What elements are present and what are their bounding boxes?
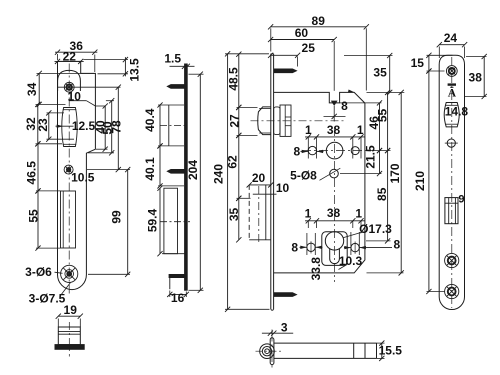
svg-text:10: 10 xyxy=(68,90,82,104)
view C: dim 46 xyxy=(379,103,381,151)
view C: upper left fixing hole xyxy=(308,146,316,154)
view A: dim 10 leader xyxy=(70,100,87,102)
view D: vertical centreline xyxy=(451,57,453,308)
view C: euro cylinder cutout rounded rect xyxy=(322,232,347,266)
section view C: rolled edge circles xyxy=(260,344,275,359)
section view C: dim 15.5 xyxy=(377,342,385,344)
view A: dim 99 xyxy=(127,170,129,275)
view B: dim 59.4 and cutout box xyxy=(159,188,161,254)
view C: dim 1 38 1 upper xyxy=(305,136,365,138)
svg-text:8: 8 xyxy=(291,240,298,254)
view A: dim 78 xyxy=(117,87,119,169)
view A: dim 55 xyxy=(37,191,39,248)
view A: middle screw 10.5 xyxy=(64,165,73,174)
svg-text:240: 240 xyxy=(212,164,226,184)
view A: bottom screw 3-Ø6 / 3-Ø7.5 xyxy=(61,265,78,282)
view C: bottom fixing screw bump xyxy=(274,292,298,297)
svg-text:1: 1 xyxy=(357,123,364,137)
view D: small circle below barrel xyxy=(447,139,455,147)
view C: left dim chain 35 xyxy=(238,198,240,240)
view B: faceplate side profile (black plate) xyxy=(185,64,188,290)
view C: hub centreline horizontal xyxy=(302,150,368,152)
svg-text:46.5: 46.5 xyxy=(25,161,39,185)
view C: follower hub hole xyxy=(326,142,343,159)
view A: dim 40 xyxy=(104,106,106,149)
svg-text:10: 10 xyxy=(276,181,290,195)
view A: dim 36 xyxy=(55,51,97,53)
view A: dim 22 on tab top edge xyxy=(55,60,84,62)
view C: small arrow on case top edge xyxy=(348,89,355,92)
view C: latch bolt body behind faceplate xyxy=(274,107,280,135)
svg-text:55: 55 xyxy=(26,209,40,223)
view D: dim 38 xyxy=(483,57,485,97)
view C: dim 170 xyxy=(400,92,402,273)
svg-text:5-Ø8: 5-Ø8 xyxy=(290,169,317,183)
view D: brand logo xyxy=(448,83,456,85)
section view A-A: dim 19 xyxy=(58,315,80,317)
section view C: faceplate capsule xyxy=(270,338,274,365)
svg-text:14.8: 14.8 xyxy=(445,105,469,119)
view B: dim chain 40.4 xyxy=(159,105,161,146)
svg-text:99: 99 xyxy=(109,210,123,224)
svg-text:24: 24 xyxy=(444,31,458,45)
view C: faceplate double line xyxy=(270,54,272,309)
svg-text:59.4: 59.4 xyxy=(146,208,160,232)
view A: tall inner arch at plate top xyxy=(58,70,81,91)
view B: dim chain 40.1 xyxy=(159,146,161,186)
svg-text:19: 19 xyxy=(64,303,78,317)
view C: latch centreline xyxy=(251,120,346,122)
view C: latch bolt head xyxy=(258,107,271,135)
svg-text:48.5: 48.5 xyxy=(226,67,240,91)
svg-text:3-Ø6: 3-Ø6 xyxy=(25,265,52,279)
view C: case top ext line xyxy=(367,91,405,93)
view B: dim 204 xyxy=(199,74,201,290)
svg-text:62: 62 xyxy=(226,155,240,169)
view C: dim 60 xyxy=(271,39,335,41)
svg-text:35: 35 xyxy=(227,208,241,222)
view C: notch dim 8 arrow and ext xyxy=(331,101,338,106)
view A: faceplate front view outline xyxy=(58,61,96,289)
view C: left dim chain 48.5 xyxy=(238,54,240,107)
svg-text:8: 8 xyxy=(293,145,300,159)
svg-text:170: 170 xyxy=(388,163,402,183)
view C: euro profile cylinder hole xyxy=(325,232,343,250)
view C: dim 8 upper left hole xyxy=(301,150,309,152)
view A: dim 32 xyxy=(37,104,39,143)
view C: upper right fixing hole xyxy=(351,147,359,155)
view C: hidden lower guide box dashed xyxy=(248,185,250,240)
svg-text:33.8: 33.8 xyxy=(309,257,323,281)
view D: latch barrel cutout xyxy=(444,103,459,127)
view B: top screw bump xyxy=(166,84,184,89)
svg-text:89: 89 xyxy=(312,14,326,28)
svg-text:3-Ø7.5: 3-Ø7.5 xyxy=(29,292,66,306)
view A: dim 46.5 xyxy=(37,144,39,191)
view D: dim 210 xyxy=(428,71,430,292)
view B: bottom foot black bar xyxy=(169,274,185,277)
svg-text:1.5: 1.5 xyxy=(164,52,181,66)
svg-text:1: 1 xyxy=(355,207,362,221)
svg-text:9: 9 xyxy=(458,194,464,206)
view A: dim 23 xyxy=(48,113,50,139)
view C: 5-Ø8 hole with leader xyxy=(330,169,339,178)
view C: left dim chain 62 xyxy=(238,135,240,198)
view A: dim 13.5 xyxy=(124,57,126,76)
section view A-A: faceplate section box xyxy=(58,327,80,345)
svg-text:35: 35 xyxy=(373,66,387,80)
view B: cylinder centre mark xyxy=(160,221,190,223)
svg-text:34: 34 xyxy=(25,82,39,96)
view A: dim 50 xyxy=(111,101,113,153)
view C: dim 89 xyxy=(271,26,367,28)
view C: left dim chain 27 xyxy=(238,107,240,135)
view C: dim 55 xyxy=(387,92,389,150)
svg-text:85: 85 xyxy=(375,187,389,201)
section view A-A: centerline xyxy=(68,322,70,357)
view C: vertical centreline through hub and cylinder xyxy=(334,127,336,282)
view B: middle screw bump xyxy=(166,169,184,174)
view C: dim 21.5 xyxy=(379,151,381,174)
svg-text:40.1: 40.1 xyxy=(143,157,157,181)
view A: top screw xyxy=(64,82,74,92)
svg-text:204: 204 xyxy=(186,160,200,180)
view C: lock case outline with notch and chamfers xyxy=(274,92,365,273)
section view A-A: plate base bar xyxy=(55,345,84,350)
svg-text:38: 38 xyxy=(327,123,341,137)
view D: dim 24 xyxy=(439,44,464,46)
view B: foot box xyxy=(169,278,171,290)
svg-text:210: 210 xyxy=(413,171,427,191)
view C: dim 8 lower right hole xyxy=(350,232,352,255)
view D: plate outline rounded ends xyxy=(439,55,464,309)
view A: slot cutout rectangle xyxy=(61,191,76,248)
view D: bottom screw xyxy=(445,284,459,298)
view C: dim 85 xyxy=(387,151,389,241)
view C: dim 8 lower left hole xyxy=(306,233,308,255)
svg-text:55: 55 xyxy=(376,109,390,123)
svg-text:Ä: Ä xyxy=(448,86,457,100)
svg-text:13.5: 13.5 xyxy=(127,58,141,82)
svg-text:38: 38 xyxy=(469,71,483,85)
view A: ext line through shoulder y73.4 xyxy=(37,72,96,74)
svg-text:40.4: 40.4 xyxy=(143,108,157,132)
view C: dim 10 mark xyxy=(253,193,277,195)
svg-text:15: 15 xyxy=(411,56,425,70)
svg-text:27: 27 xyxy=(227,114,241,128)
view C: top fixing screw bump xyxy=(274,69,298,74)
view A: vertical centerline xyxy=(68,64,70,297)
view D: strike box cutout 9 xyxy=(445,198,458,224)
svg-text:25: 25 xyxy=(302,41,316,55)
view C: dim 1 38 1 lower xyxy=(305,220,365,222)
svg-text:15.5: 15.5 xyxy=(379,343,403,357)
view B: dim 16 xyxy=(170,293,187,295)
view D: top screw xyxy=(446,66,457,77)
section view C: case tube xyxy=(274,342,377,344)
svg-text:16: 16 xyxy=(171,291,185,305)
svg-text:23: 23 xyxy=(36,118,50,132)
svg-text:60: 60 xyxy=(295,26,309,40)
svg-text:12.5: 12.5 xyxy=(72,119,96,133)
view D: dim 15 xyxy=(428,55,430,71)
view C: dim 240 xyxy=(227,54,229,309)
view C: lower left fixing hole xyxy=(307,243,315,251)
svg-text:1: 1 xyxy=(305,207,312,221)
view D: middle screw xyxy=(445,253,459,267)
svg-text:78: 78 xyxy=(110,120,124,134)
svg-text:21.5: 21.5 xyxy=(364,145,378,169)
view A: latch barrel cutout xyxy=(62,108,77,147)
view B: hub centre mark xyxy=(160,125,188,127)
section view C: centre marks xyxy=(271,330,273,369)
view A: dim 34 xyxy=(38,73,40,104)
view C: dim 20 xyxy=(249,184,271,186)
svg-text:20: 20 xyxy=(252,171,266,185)
svg-text:22: 22 xyxy=(63,50,77,64)
view A: dim 12.5 with arrow xyxy=(56,125,74,127)
svg-text:10.5: 10.5 xyxy=(71,171,95,185)
view C: dim 35 top right xyxy=(389,56,391,93)
svg-text:10.3: 10.3 xyxy=(339,254,363,268)
view C: dim 25 xyxy=(271,54,298,56)
view C: lower right fixing hole xyxy=(351,243,359,251)
svg-text:3: 3 xyxy=(281,320,288,334)
svg-text:8: 8 xyxy=(341,99,348,113)
svg-text:38: 38 xyxy=(327,206,341,220)
svg-text:8: 8 xyxy=(393,238,400,252)
svg-text:1: 1 xyxy=(305,123,312,137)
